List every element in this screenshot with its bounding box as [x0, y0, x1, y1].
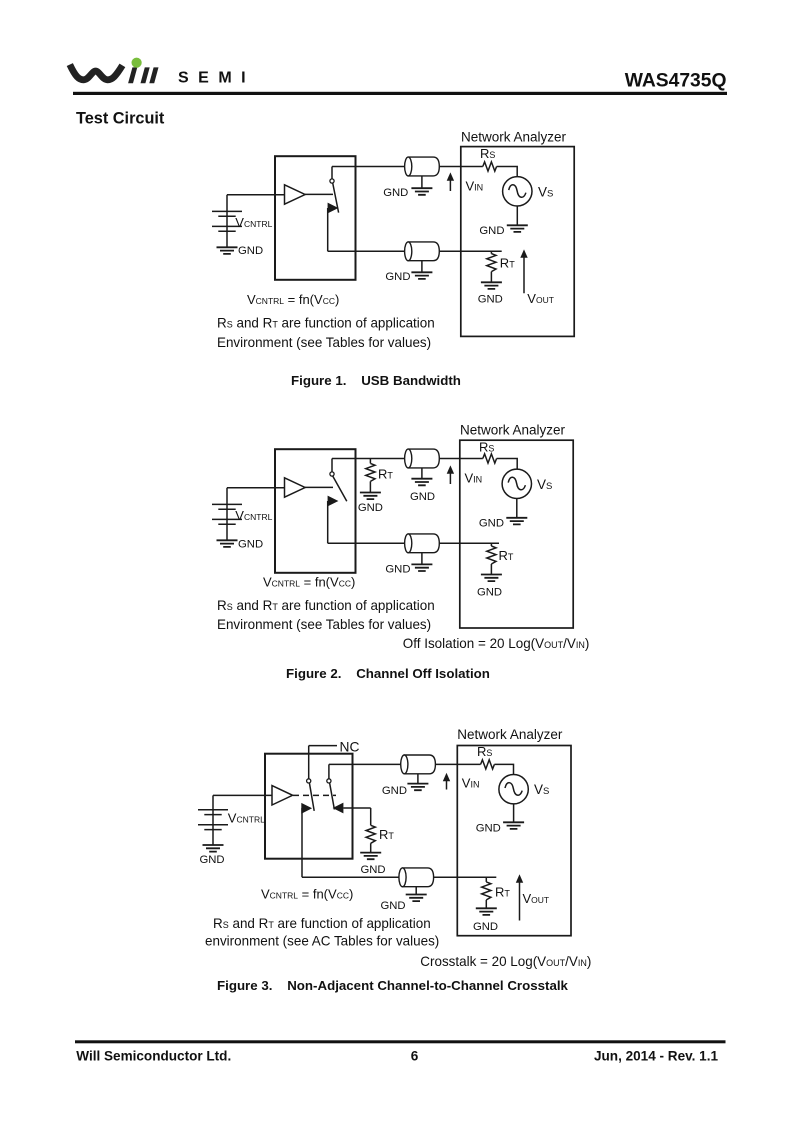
svg-text:VS: VS [534, 782, 549, 797]
svg-text:NC: NC [340, 739, 360, 754]
svg-text:GND: GND [360, 864, 385, 876]
svg-text:Network Analyzer: Network Analyzer [457, 727, 563, 742]
svg-text:VOUT: VOUT [523, 891, 550, 906]
svg-text:Environment (see Tables for va: Environment (see Tables for values) [217, 617, 431, 632]
svg-text:WAS4735Q: WAS4735Q [625, 71, 727, 92]
svg-text:GND: GND [473, 921, 498, 933]
svg-text:Network Analyzer: Network Analyzer [461, 130, 567, 145]
svg-text:SEMI: SEMI [178, 70, 255, 87]
svg-text:GND: GND [385, 271, 410, 283]
svg-text:VCNTRL = fn(VCC): VCNTRL = fn(VCC) [261, 886, 353, 901]
svg-text:environment (see AC Tables for: environment (see AC Tables for values) [205, 933, 439, 948]
svg-text:GND: GND [199, 854, 224, 866]
svg-text:GND: GND [383, 187, 408, 199]
svg-text:VIN: VIN [466, 178, 484, 193]
svg-text:Environment (see Tables for va: Environment (see Tables for values) [217, 335, 431, 350]
svg-text:Will Semiconductor Ltd.: Will Semiconductor Ltd. [76, 1048, 231, 1063]
svg-text:VS: VS [538, 184, 553, 199]
svg-text:GND: GND [479, 225, 504, 237]
svg-text:Figure 3. Non-Adjacent Chan: Figure 3. Non-Adjacent Channel-to-Channe… [217, 978, 569, 993]
svg-text:Crosstalk = 20 Log(VOUT/VIN): Crosstalk = 20 Log(VOUT/VIN) [420, 954, 591, 969]
svg-text:GND: GND [476, 823, 501, 835]
svg-text:GND: GND [479, 517, 504, 529]
svg-text:RS and RT are function of appl: RS and RT are function of application [217, 316, 435, 331]
svg-text:RT: RT [495, 884, 510, 899]
svg-text:GND: GND [358, 502, 383, 514]
svg-text:RS and RT are function of appl: RS and RT are function of application [213, 916, 431, 931]
svg-text:VCNTRL: VCNTRL [235, 215, 272, 230]
svg-text:VIN: VIN [465, 471, 483, 486]
svg-text:RT: RT [378, 467, 393, 482]
svg-text:Jun, 2014 - Rev. 1.1: Jun, 2014 - Rev. 1.1 [594, 1048, 718, 1063]
svg-text:GND: GND [385, 564, 410, 576]
svg-text:VCNTRL = fn(VCC): VCNTRL = fn(VCC) [247, 292, 339, 307]
svg-text:VCNTRL = fn(VCC): VCNTRL = fn(VCC) [263, 574, 355, 589]
svg-text:VS: VS [537, 477, 552, 492]
svg-text:RT: RT [379, 827, 394, 842]
svg-text:Figure 2. Channel Off Isola: Figure 2. Channel Off Isolation [286, 666, 490, 681]
svg-text:GND: GND [477, 586, 502, 598]
svg-text:GND: GND [238, 538, 263, 550]
svg-text:Off Isolation = 20 Log(VOUT/VI: Off Isolation = 20 Log(VOUT/VIN) [403, 636, 590, 651]
svg-text:Figure 1. USB Bandwidth: Figure 1. USB Bandwidth [291, 373, 461, 388]
svg-text:GND: GND [238, 245, 263, 257]
svg-text:RT: RT [500, 255, 515, 270]
svg-text:GND: GND [382, 785, 407, 797]
svg-text:VIN: VIN [462, 775, 480, 790]
svg-text:Network Analyzer: Network Analyzer [460, 423, 566, 438]
svg-text:RS: RS [480, 146, 495, 161]
svg-text:GND: GND [478, 293, 503, 305]
svg-text:GND: GND [410, 491, 435, 503]
svg-text:RS and RT are function of appl: RS and RT are function of application [217, 598, 435, 613]
svg-text:VOUT: VOUT [527, 291, 554, 306]
svg-text:VCNTRL: VCNTRL [235, 508, 272, 523]
svg-text:GND: GND [380, 900, 405, 912]
svg-text:Test Circuit: Test Circuit [76, 110, 165, 128]
svg-text:VCNTRL: VCNTRL [228, 811, 265, 826]
svg-text:RS: RS [479, 440, 494, 455]
svg-text:6: 6 [411, 1048, 419, 1063]
svg-text:RT: RT [499, 548, 514, 563]
